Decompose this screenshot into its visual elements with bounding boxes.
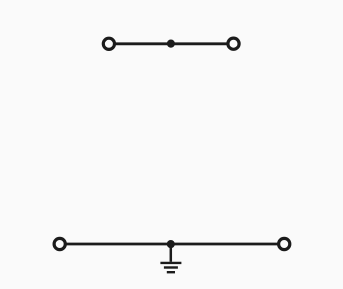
terminal circle: lower deck right [279, 238, 290, 249]
terminal circle: lower deck left [54, 238, 65, 249]
wire: lower deck bus [66, 243, 279, 246]
node: upper deck junction dot [167, 40, 175, 48]
node: lower deck junction dot [167, 240, 175, 248]
wire: upper deck bus [115, 42, 229, 45]
wire: ground stem [170, 244, 173, 262]
terminal circle: upper deck right [228, 38, 239, 49]
ground: earth symbol bar 2 [164, 266, 178, 268]
terminal circle: upper deck left [103, 38, 114, 49]
ground: earth symbol bar 3 [167, 271, 175, 273]
ground: earth symbol bar 1 [160, 262, 181, 264]
